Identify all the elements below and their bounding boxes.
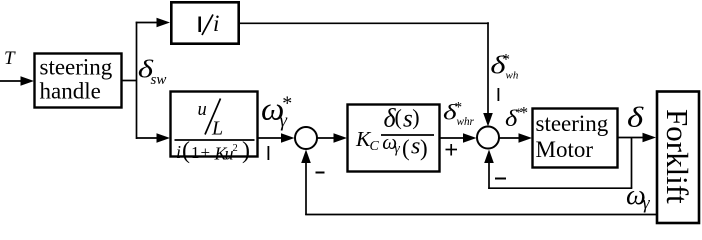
svg-text:): ): [420, 135, 428, 160]
svg-text:u: u: [198, 100, 207, 120]
svg-text:s: s: [411, 134, 420, 160]
wire: branch to 1/i block: [136, 18, 170, 28]
label omega*_gamma: [261, 91, 292, 131]
svg-text:i: i: [176, 142, 181, 162]
svg-text:*: *: [502, 52, 510, 69]
svg-text:Forklift: Forklift: [660, 109, 695, 204]
wire: motor output to forklift: [618, 133, 656, 143]
block: steering Motor: [533, 109, 618, 168]
svg-text:sw: sw: [151, 72, 167, 88]
svg-text:(: (: [395, 105, 402, 130]
wire: handle output to branch: [122, 80, 137, 82]
svg-text:γ: γ: [643, 193, 651, 213]
plus sign at S2 left input: [446, 144, 458, 156]
minus sign at S2 bottom input: [495, 178, 506, 180]
summing junction S1: [295, 127, 317, 149]
svg-text:T: T: [4, 48, 16, 69]
svg-text:*: *: [520, 103, 529, 122]
svg-text:*: *: [455, 99, 463, 115]
block: Kc delta(s)/omega(s): [348, 104, 440, 172]
block: 1/i: [171, 2, 238, 43]
svg-text:L: L: [211, 118, 223, 140]
label delta*_whr: [443, 99, 475, 128]
svg-text:): ): [242, 138, 250, 164]
label delta*_wh: [490, 52, 518, 82]
svg-text:1: 1: [191, 143, 200, 162]
svg-text:handle: handle: [40, 79, 101, 104]
block: steering handle: [35, 54, 122, 108]
summing junction S2: [477, 127, 499, 149]
wire: omega feedback from forklift to S1: [301, 150, 656, 216]
svg-text:s: s: [403, 106, 413, 133]
svg-text:δ: δ: [627, 100, 644, 133]
wire: branch vertical: [136, 22, 138, 139]
mark: vertical bar near sum1 input: [268, 146, 270, 160]
wire: torque input: [0, 76, 34, 86]
svg-text:γ: γ: [394, 141, 400, 156]
wire: feedback from motor output down to sum2: [484, 138, 632, 190]
wire: sum2 output to motor: [500, 133, 533, 143]
svg-text:steering: steering: [536, 111, 609, 136]
svg-text:i: i: [213, 11, 219, 36]
svg-text:2: 2: [233, 143, 238, 154]
svg-text:Motor: Motor: [536, 137, 594, 162]
mark: vertical bar near top input: [498, 88, 500, 101]
wire: u/L output to sum1: [258, 133, 295, 143]
label delta_sw: [138, 56, 166, 88]
block: u/L over i(1+Ku^2): [171, 92, 258, 165]
svg-text:γ: γ: [280, 110, 288, 131]
label delta**: [505, 103, 528, 132]
block: Forklift: [657, 92, 699, 224]
svg-text:(: (: [402, 135, 410, 160]
label omega_gamma: [626, 180, 651, 213]
svg-text:steering: steering: [40, 55, 113, 80]
svg-text:whr: whr: [457, 116, 475, 128]
svg-text:+: +: [201, 143, 211, 162]
svg-text:C: C: [370, 139, 380, 154]
wire: branch to u/L block: [136, 133, 170, 143]
svg-text:wh: wh: [506, 70, 519, 82]
svg-text:): ): [412, 105, 419, 130]
minus sign at S1: [316, 172, 325, 174]
wire: S1 output to Kc block: [318, 133, 348, 143]
wire: Kc output to sum2: [440, 133, 477, 143]
svg-text:(: (: [182, 138, 190, 164]
wire: 1/i output to second sum: [239, 22, 493, 126]
